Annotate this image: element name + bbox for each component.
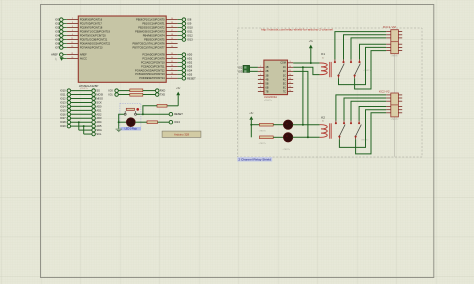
- relay K2 coil: [320, 123, 332, 138]
- svg-text:23: 23: [171, 53, 173, 55]
- svg-text:PD5/T1/OC0B/PCINT21: PD5/T1/OC0B/PCINT21: [80, 37, 108, 41]
- power +5V (indicator LEDs): [249, 112, 254, 138]
- svg-text:IO9: IO9: [187, 22, 192, 26]
- svg-text:27: 27: [171, 69, 173, 71]
- junction 1C branch: [302, 66, 304, 68]
- svg-text:RXD: RXD: [160, 89, 166, 93]
- LED D1: [126, 118, 135, 127]
- svg-text:K1: K1: [321, 52, 325, 56]
- header row terminal IO18 to AD4: [60, 120, 102, 124]
- svg-text:20: 20: [71, 57, 73, 59]
- header row terminal IO10 to SS: [60, 89, 100, 93]
- net line below terminal block 2: [394, 117, 396, 157]
- svg-text:18: 18: [171, 34, 173, 36]
- svg-text:5v: 5v: [322, 57, 324, 59]
- resistor R4: [147, 121, 158, 124]
- connector J1: [243, 65, 250, 72]
- pin 5B (5): [258, 82, 269, 85]
- wire K2 NC1 to block: [336, 95, 386, 121]
- pin PC1/ADC1/PCINT9 (pin 24) with terminal AD1: [142, 56, 192, 60]
- svg-text:PB4/MISO/PCINT4: PB4/MISO/PCINT4: [143, 33, 165, 37]
- svg-text:<TEXT>: <TEXT>: [259, 130, 267, 133]
- svg-text:PC2/ADC2/PCINT10: PC2/ADC2/PCINT10: [141, 60, 165, 64]
- svg-text:<TEXT>: <TEXT>: [363, 69, 371, 72]
- pin PB0/ICP1/CLKO/PCINT0 (pin 14) with terminal IO8: [136, 17, 192, 21]
- header row terminal IO11 to MOSI: [60, 93, 103, 97]
- svg-text:16: 16: [289, 66, 291, 68]
- pin PD7/AIN1/PCINT23 (pin 13) with terminal IO7: [55, 45, 103, 49]
- svg-text:7C: 7C: [283, 90, 286, 93]
- svg-text:21: 21: [71, 53, 73, 55]
- ground: [116, 122, 122, 132]
- relay K1 contact poles: [334, 59, 361, 78]
- svg-text:3: 3: [260, 74, 261, 76]
- svg-text:KC1-V2: KC1-V2: [383, 25, 397, 29]
- svg-text:5v: 5v: [322, 121, 324, 123]
- svg-text:IO10: IO10: [60, 89, 66, 93]
- pin PD6/AIN0/OC0A/PCINT22 (pin 12) with terminal IO6: [55, 41, 111, 45]
- svg-text:2 Channel Relay Shield: 2 Channel Relay Shield: [238, 158, 271, 162]
- header row terminal IO12 to MISO: [60, 96, 103, 100]
- selection box around button and LED: [120, 103, 141, 128]
- svg-text:<TEXT>: <TEXT>: [391, 55, 399, 58]
- pin COM (9): [280, 61, 293, 64]
- svg-text:LED 0 Rojo: LED 0 Rojo: [125, 128, 138, 131]
- svg-text:PD1/TXD/PCINT17: PD1/TXD/PCINT17: [80, 21, 103, 25]
- svg-text:28: 28: [171, 73, 173, 75]
- svg-text:RESET: RESET: [174, 112, 183, 116]
- pin PC0/ADC0/PCINT8 (pin 23) with terminal AD0: [142, 52, 192, 56]
- relay K1 label: [321, 52, 325, 59]
- wire K2 NC2 to block: [351, 101, 386, 120]
- svg-text:PC4/ADC4/SDA/PCINT12: PC4/ADC4/SDA/PCINT12: [135, 68, 165, 72]
- junction +5V COM: [310, 62, 312, 64]
- svg-text:12: 12: [289, 82, 291, 84]
- svg-text:PC1/ADC1/PCINT9: PC1/ADC1/PCINT9: [142, 56, 165, 60]
- wire 2C down to LED row: [293, 71, 308, 137]
- pin AREF (21) with terminal AREF: [51, 52, 87, 56]
- svg-text:<TEXT>: <TEXT>: [259, 142, 267, 145]
- svg-text:2: 2: [260, 70, 261, 72]
- svg-text:7B: 7B: [266, 90, 269, 93]
- pin PC3/ADC3/PCINT11 (pin 26) with terminal AD3: [141, 64, 193, 68]
- svg-text:PD0/RXD/PCINT16: PD0/RXD/PCINT16: [80, 17, 103, 21]
- svg-text:5B: 5B: [266, 82, 269, 85]
- svg-text:PB6/TOSC1/XTAL1/PCINT6: PB6/TOSC1/XTAL1/PCINT6: [133, 41, 166, 45]
- svg-text:IO15: IO15: [60, 108, 66, 112]
- svg-text:14: 14: [171, 18, 173, 20]
- wire +5V to R5: [251, 124, 259, 126]
- svg-text:IO2: IO2: [55, 26, 60, 30]
- svg-text:AREF: AREF: [80, 52, 87, 56]
- svg-text:6: 6: [72, 34, 73, 36]
- terminal IO1 to resistor R2: [109, 92, 130, 96]
- svg-text:MISO: MISO: [96, 96, 103, 100]
- svg-text:SCK: SCK: [96, 100, 102, 104]
- svg-text:PB0/ICP1/CLKO/PCINT0: PB0/ICP1/CLKO/PCINT0: [136, 17, 165, 21]
- pin 2C (15): [283, 70, 293, 73]
- pin 7B (7): [258, 90, 269, 93]
- pin PB6/TOSC1/XTAL1/PCINT6 (pin 9): [133, 41, 178, 45]
- wire J1 to 2B: [250, 70, 258, 72]
- svg-text:AD0: AD0: [187, 53, 193, 57]
- svg-text:IO13: IO13: [60, 100, 66, 104]
- svg-text:AD4: AD4: [187, 68, 193, 72]
- header row SDA: [79, 128, 102, 132]
- svg-text:PB7/TOSC2/XTAL2/PCINT7: PB7/TOSC2/XTAL2/PCINT7: [133, 45, 166, 49]
- wire LED to R4: [135, 121, 147, 123]
- label LED 0 Rojo: [121, 127, 141, 131]
- pin PB7/TOSC2/XTAL2/PCINT7 (pin 10): [133, 45, 178, 49]
- svg-text:13: 13: [71, 46, 73, 48]
- wire K1 pole2 to block: [355, 51, 387, 89]
- pin PB1/OC1A/PCINT1 (pin 15) with terminal IO9: [142, 21, 191, 25]
- pin PC4/ADC4/SDA/PCINT12 (pin 27) with terminal AD4: [135, 68, 193, 72]
- pin PD5/T1/OC0B/PCINT21 (pin 11) with terminal IO5: [55, 37, 108, 41]
- svg-text:IO0: IO0: [109, 89, 114, 93]
- header row terminal IO13 to SCK: [60, 100, 102, 104]
- svg-text:IO4: IO4: [55, 34, 60, 38]
- svg-text:PD6/AIN0/OC0A/PCINT22: PD6/AIN0/OC0A/PCINT22: [80, 41, 111, 45]
- svg-text:IO3: IO3: [238, 69, 243, 73]
- net line between terminal blocks: [394, 54, 396, 93]
- pin PB4/MISO/PCINT4 (pin 18) with terminal IO12: [143, 33, 193, 37]
- svg-text:IO0: IO0: [55, 18, 60, 22]
- junction 2C at K2 row: [307, 136, 309, 138]
- svg-text:1: 1: [171, 77, 172, 79]
- svg-text:26: 26: [171, 65, 173, 67]
- pin PD2/INT0/PCINT18 (pin 4) with terminal IO2: [55, 25, 103, 29]
- sheet border: [41, 5, 434, 278]
- relay shield boundary box: [238, 28, 422, 157]
- wire K1 NO1 to block: [344, 35, 387, 60]
- svg-text:6: 6: [260, 86, 261, 88]
- wire K1 NC1 to block: [335, 32, 386, 60]
- svg-text:2B: 2B: [266, 70, 269, 73]
- svg-text:K2: K2: [321, 115, 325, 119]
- resistor R6: [260, 136, 274, 139]
- svg-text:3B: 3B: [266, 74, 269, 77]
- svg-text:IO18: IO18: [60, 120, 66, 124]
- svg-text:IO2: IO2: [238, 65, 243, 69]
- wire D2 to K2 coil top: [293, 124, 320, 126]
- svg-text:IO12: IO12: [60, 96, 66, 100]
- wire R5 to LED D2: [273, 124, 284, 126]
- wire R3 to reset net: [143, 106, 157, 114]
- svg-text:COM: COM: [280, 62, 286, 65]
- svg-text:IO7: IO7: [55, 45, 60, 49]
- resistor R1: [130, 89, 143, 92]
- svg-text:4: 4: [72, 26, 73, 28]
- svg-text:IO11: IO11: [60, 93, 66, 97]
- svg-text:SDA: SDA: [96, 128, 102, 132]
- microcontroller U1 body: [78, 16, 166, 82]
- svg-text:PB1/OC1A/PCINT1: PB1/OC1A/PCINT1: [142, 21, 165, 25]
- svg-text:PB5/SCK/PCINT5: PB5/SCK/PCINT5: [144, 37, 165, 41]
- svg-text:AVCC: AVCC: [80, 56, 87, 60]
- wire 1C down to LED row: [302, 67, 304, 124]
- wire IO18 to SDA: [78, 121, 80, 130]
- resistor R2: [130, 93, 143, 96]
- pushbutton: [124, 108, 139, 115]
- header row terminal IO19 to AD5: [60, 124, 102, 128]
- svg-text:AREF: AREF: [51, 54, 58, 57]
- svg-text:PD3/INT1/OC2B/PCINT19: PD3/INT1/OC2B/PCINT19: [80, 29, 111, 33]
- relay K2 label: [321, 115, 325, 122]
- svg-text:AD5: AD5: [187, 72, 193, 76]
- wire R1 to RXD terminal: [143, 89, 166, 93]
- svg-text:PD2/INT0/PCINT18: PD2/INT0/PCINT18: [80, 25, 103, 29]
- svg-text:9: 9: [171, 42, 172, 44]
- svg-text:7: 7: [260, 90, 261, 92]
- LED D2: [283, 120, 292, 129]
- svg-text:IO10: IO10: [187, 26, 193, 30]
- svg-text:4: 4: [260, 78, 261, 80]
- svg-text:2: 2: [72, 18, 73, 20]
- svg-text:IO11: IO11: [187, 30, 193, 34]
- svg-text:14: 14: [289, 74, 291, 76]
- svg-text:IO13: IO13: [174, 120, 180, 124]
- pin 1C (16): [283, 66, 293, 69]
- pin PB5/SCK/PCINT5 (pin 19) with terminal IO13: [144, 37, 193, 41]
- wire K1 NO2 to block: [360, 44, 387, 59]
- header row terminal IO15 to AD1: [60, 108, 102, 112]
- svg-text:IO6: IO6: [55, 41, 60, 45]
- resistor R5: [260, 123, 274, 126]
- svg-text:5C: 5C: [283, 82, 286, 85]
- wire J1 to 1B: [250, 66, 258, 68]
- svg-text:5: 5: [72, 30, 73, 32]
- svg-text:IO8: IO8: [187, 18, 192, 22]
- wire COM rail to K1 coil: [293, 62, 319, 64]
- svg-text:PD7/AIN1/PCINT23: PD7/AIN1/PCINT23: [80, 45, 103, 49]
- svg-text:IO1: IO1: [109, 92, 114, 96]
- pin 1B (1): [258, 66, 269, 69]
- wire R4 to IO13 terminal: [158, 120, 181, 124]
- wire K2 NO1 to block: [344, 98, 386, 121]
- svg-text:MOSI: MOSI: [96, 93, 103, 97]
- svg-text:IO19: IO19: [60, 124, 66, 128]
- svg-text:IO13: IO13: [187, 38, 193, 42]
- svg-text:AD1: AD1: [187, 57, 193, 61]
- svg-text:AD2: AD2: [96, 112, 102, 116]
- wire button to LED node: [119, 114, 124, 122]
- svg-text:15: 15: [171, 22, 173, 24]
- label 2 Channel Relay Shield: [237, 157, 272, 162]
- pin 2B (2): [258, 70, 269, 73]
- pin PB3/MOSI/OC2A/PCINT3 (pin 17) with terminal IO11: [135, 29, 193, 33]
- wire K1 pole1 to block: [339, 47, 387, 84]
- svg-text:<TEXT>: <TEXT>: [391, 118, 399, 121]
- header row terminal IO14 to AD0: [60, 104, 102, 108]
- svg-text:15: 15: [289, 70, 291, 72]
- svg-text:5: 5: [260, 82, 261, 84]
- svg-text:AD0: AD0: [96, 104, 102, 108]
- svg-text:SCL: SCL: [96, 132, 102, 136]
- pin PC5/ADC5/SCL/PCINT13 (pin 28) with terminal AD5: [135, 72, 192, 76]
- svg-text:KC2-V2: KC2-V2: [379, 90, 390, 94]
- LED D3: [283, 133, 292, 142]
- svg-text:12: 12: [71, 42, 73, 44]
- pin PD4/T0/XCK/PCINT20 (pin 6) with terminal IO4: [55, 33, 106, 37]
- header row SCL: [84, 132, 102, 136]
- svg-text:3: 3: [72, 22, 73, 24]
- wire 1C to K1 coil: [293, 67, 319, 74]
- pin PC2/ADC2/PCINT10 (pin 25) with terminal AD2: [141, 60, 193, 64]
- svg-text:PB3/MOSI/OC2A/PCINT3: PB3/MOSI/OC2A/PCINT3: [135, 29, 165, 33]
- svg-text:RESET: RESET: [187, 76, 196, 80]
- svg-text:<TEXT>: <TEXT>: [283, 148, 291, 151]
- pin 3B (3): [258, 74, 269, 77]
- svg-text:AD2: AD2: [187, 60, 193, 64]
- svg-text:6C: 6C: [283, 86, 286, 89]
- wire K1 NC2 to block: [351, 38, 386, 60]
- svg-text:IO12: IO12: [187, 34, 193, 38]
- terminal block TB2: [386, 93, 402, 117]
- wire R2 to TXD terminal: [143, 92, 165, 96]
- svg-text:PC6/RESET/PCINT14: PC6/RESET/PCINT14: [139, 76, 165, 80]
- pin PD0/RXD/PCINT16 (pin 2) with terminal IO0: [55, 17, 103, 21]
- pin PC6/RESET/PCINT14 (pin 1) with terminal RESET: [139, 76, 196, 80]
- svg-text:13: 13: [289, 78, 291, 80]
- wire R6 to LED D3: [273, 136, 284, 138]
- junction 1C at K2 row: [302, 124, 304, 126]
- svg-text:25: 25: [171, 61, 173, 63]
- svg-text:3C: 3C: [283, 74, 286, 77]
- svg-text:9: 9: [290, 61, 291, 63]
- svg-text:<TEXT>: <TEXT>: [264, 99, 273, 102]
- svg-text:AD3: AD3: [187, 64, 193, 68]
- svg-text:IO16: IO16: [60, 112, 66, 116]
- svg-text:TXD: TXD: [160, 92, 165, 96]
- junction LED node: [118, 121, 120, 123]
- svg-text:16: 16: [171, 26, 173, 28]
- wire K2 pole1 to block: [339, 110, 386, 148]
- svg-text:IO3: IO3: [55, 30, 60, 34]
- header row terminal IO16 to AD2: [60, 112, 102, 116]
- svg-text:IO5: IO5: [55, 38, 60, 42]
- svg-text:PD4/T0/XCK/PCINT20: PD4/T0/XCK/PCINT20: [80, 33, 106, 37]
- resistor R3 (pullup): [157, 104, 167, 107]
- wire reset net to RESET terminal: [137, 112, 184, 116]
- svg-text:ATMEGA328P: ATMEGA328P: [79, 84, 99, 88]
- svg-text:10: 10: [171, 46, 173, 48]
- svg-text:1B: 1B: [266, 66, 269, 69]
- terminal block TB1: [386, 30, 402, 54]
- svg-text:AD3: AD3: [96, 116, 102, 120]
- power +5V (relay K1): [309, 40, 314, 63]
- wire +5V to R3: [167, 105, 178, 107]
- pin 3C (14): [283, 74, 293, 77]
- svg-text:19: 19: [171, 38, 173, 40]
- pin 7C (10): [283, 90, 293, 93]
- svg-text:6B: 6B: [266, 86, 269, 89]
- pin 4C (13): [283, 78, 293, 81]
- svg-text:PC0/ADC0/PCINT8: PC0/ADC0/PCINT8: [142, 52, 165, 56]
- svg-text:SS: SS: [96, 89, 100, 93]
- svg-text:PB2/SS/OC1B/PCINT2: PB2/SS/OC1B/PCINT2: [138, 25, 165, 29]
- svg-text:PC3/ADC3/PCINT11: PC3/ADC3/PCINT11: [141, 64, 165, 68]
- pin 6B (6): [258, 86, 269, 89]
- pin PD1/TXD/PCINT17 (pin 3) with terminal IO1: [55, 21, 102, 25]
- svg-text:http://ruirods.com/relay-shiel: http://ruirods.com/relay-shield-for-ardu…: [261, 28, 334, 32]
- svg-text:4C: 4C: [283, 78, 286, 81]
- pin PB2/SS/OC1B/PCINT2 (pin 16) with terminal IO10: [138, 25, 193, 29]
- junction +5V LED row: [250, 124, 252, 126]
- svg-text:17: 17: [171, 30, 173, 32]
- driver U2 ULN2003A body: [264, 60, 288, 95]
- pin 5C (12): [283, 82, 293, 85]
- svg-text:IO17: IO17: [60, 116, 66, 120]
- svg-text:2C: 2C: [283, 70, 286, 73]
- header row terminal IO17 to AD3: [60, 116, 102, 120]
- svg-text:4B: 4B: [266, 78, 269, 81]
- label box Arduino 328: [162, 131, 201, 137]
- wire IO19 to SCL: [83, 125, 85, 134]
- wire node to LED anode: [119, 121, 127, 123]
- svg-text:11: 11: [71, 38, 73, 40]
- svg-text:10: 10: [289, 90, 291, 92]
- relay K1 coil: [320, 62, 332, 77]
- pin PD3/INT1/OC2B/PCINT19 (pin 5) with terminal IO3: [55, 29, 110, 33]
- svg-text:IO14: IO14: [60, 104, 66, 108]
- svg-text:24: 24: [171, 57, 173, 59]
- relay K2 contact poles: [335, 120, 361, 139]
- svg-text:Arduino 328: Arduino 328: [174, 132, 190, 136]
- wire D3 to K2 coil bottom: [293, 136, 320, 138]
- wire K2 NO2 to block: [359, 107, 386, 121]
- svg-text:AD1: AD1: [96, 108, 102, 112]
- power +5V (reset pullup): [176, 87, 181, 106]
- svg-text:11: 11: [289, 86, 291, 88]
- svg-text:1: 1: [260, 66, 261, 68]
- svg-text:1C: 1C: [283, 66, 286, 69]
- svg-text:IO1: IO1: [55, 22, 60, 26]
- pin AVCC (20) with +5V power symbol: [56, 56, 87, 61]
- svg-text:<TEXT>: <TEXT>: [80, 87, 89, 90]
- wire K2 pole2 to block: [356, 113, 387, 154]
- pin 4B (4): [258, 78, 269, 81]
- junction reset net: [142, 113, 144, 115]
- svg-text:PC5/ADC5/SCL/PCINT13: PC5/ADC5/SCL/PCINT13: [135, 72, 165, 76]
- svg-text:AD5: AD5: [96, 124, 102, 128]
- terminal IO0 to resistor R1: [109, 89, 130, 93]
- svg-text:AD4: AD4: [96, 120, 102, 124]
- pin 6C (11): [283, 86, 293, 89]
- svg-text:ULN2003A: ULN2003A: [264, 95, 277, 99]
